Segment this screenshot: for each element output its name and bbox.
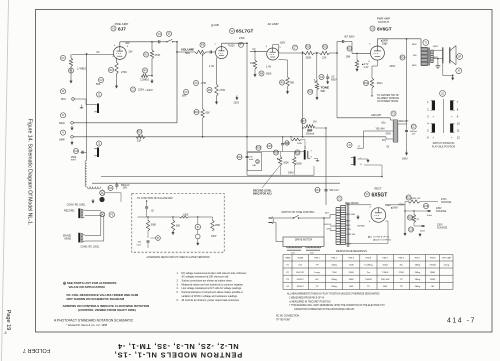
svg-text:C14: C14 bbox=[315, 190, 320, 192]
svg-text:All controls at minimum, prope: All controls at minimum, proper output l… bbox=[182, 299, 240, 302]
page margin rule bbox=[2, 0, 9, 361]
mic jack J1 bbox=[72, 92, 102, 113]
svg-text:M: M bbox=[458, 71, 460, 73]
svg-text:R12: R12 bbox=[308, 92, 313, 94]
svg-text:2m: 2m bbox=[367, 272, 370, 274]
junction dot mic line bbox=[86, 53, 88, 55]
motor windings bbox=[287, 247, 322, 248]
svg-text:14Ω: 14Ω bbox=[413, 54, 417, 57]
svg-text:TO PIN 8 OF V3: TO PIN 8 OF V3 bbox=[373, 237, 390, 239]
svg-text:Measured values are from socke: Measured values are from socket pin to c… bbox=[182, 283, 244, 286]
cap C18 40mf 445V source bbox=[404, 203, 432, 217]
svg-text:° Howard W. Sams & Co., Inc. 1: ° Howard W. Sams & Co., Inc. 1958 bbox=[66, 323, 108, 327]
speaker designator SP bbox=[457, 54, 463, 60]
input designator RAD bbox=[59, 113, 66, 125]
svg-text:50Ω: 50Ω bbox=[382, 122, 387, 125]
svg-text:TO JUNCTION OF R11 AND R20: TO JUNCTION OF R11 AND R20 bbox=[137, 197, 173, 200]
svg-text:260VAC: 260VAC bbox=[357, 225, 365, 228]
bus wire y183.2 bbox=[92, 182, 340, 184]
svg-text:SWITCH ON TONE CONTROL: SWITCH ON TONE CONTROL bbox=[281, 211, 315, 214]
svg-text:A PHOTOFACT STANDARD NOTATI: A PHOTOFACT STANDARD NOTATION SCHEMATIC bbox=[54, 319, 134, 323]
ref left of R10 bbox=[292, 45, 297, 50]
svg-text:.007 600V: .007 600V bbox=[344, 35, 355, 38]
svg-text:9Ω: 9Ω bbox=[431, 285, 434, 288]
svg-text:2500: 2500 bbox=[71, 157, 77, 159]
alt cap 250mmf 2KV bbox=[137, 241, 150, 248]
svg-text:GRN: GRN bbox=[327, 228, 332, 230]
coupling cap C9 .007 600V bbox=[337, 35, 355, 53]
wire grid V1 bbox=[72, 54, 113, 56]
svg-text:0V: 0V bbox=[96, 50, 99, 54]
cathode resistor R2 270 ohm bbox=[115, 58, 118, 85]
B+ series resistor R10 220K bbox=[302, 51, 319, 59]
resistor refs R1 bbox=[60, 55, 86, 73]
svg-text:R11: R11 bbox=[323, 47, 328, 49]
rectifier output labels bbox=[385, 205, 404, 210]
svg-text:R14: R14 bbox=[364, 83, 369, 85]
choke labels bbox=[376, 121, 409, 149]
svg-text:PIN 8: PIN 8 bbox=[430, 258, 436, 260]
svg-text:250Ω: 250Ω bbox=[382, 264, 388, 267]
coil horizontal run bbox=[87, 187, 100, 189]
svg-text:RED-WH: RED-WH bbox=[399, 121, 409, 123]
svg-text:10M: 10M bbox=[346, 56, 351, 59]
power transformer T2 label leads bbox=[345, 202, 365, 245]
tube designator 6SL7GT bbox=[229, 28, 253, 33]
svg-text:50K: 50K bbox=[321, 89, 326, 93]
svg-text:R10: R10 bbox=[306, 47, 311, 49]
svg-text:RAD.: RAD. bbox=[59, 121, 65, 125]
svg-text:C17: C17 bbox=[412, 127, 417, 129]
svg-text:CAPACITOR CONNECTED IN THE ASS: CAPACITOR CONNECTED IN THE ASSOCIATED CI… bbox=[294, 308, 355, 311]
svg-text:RECT: RECT bbox=[374, 187, 381, 191]
see parts list note bbox=[63, 281, 117, 289]
svg-text:PENTRON MODELS NL-1, -1S,: PENTRON MODELS NL-1, -1S, bbox=[114, 350, 242, 359]
connector leads down bbox=[100, 217, 102, 236]
svg-text:†10K: †10K bbox=[332, 272, 338, 274]
record head wires bbox=[85, 209, 101, 211]
svg-text:PIN 6: PIN 6 bbox=[399, 258, 405, 260]
svg-text:DRIVE MOTOR: DRIVE MOTOR bbox=[295, 239, 312, 242]
svg-text:250Ω: 250Ω bbox=[349, 271, 355, 274]
V2a plate network vertical bbox=[221, 43, 223, 46]
svg-text:CONN. RE. 10911: CONN. RE. 10911 bbox=[81, 247, 100, 249]
V3 cathode voltage labels bbox=[362, 63, 369, 69]
svg-text:mmf: mmf bbox=[71, 160, 76, 162]
svg-text:PIN 3: PIN 3 bbox=[349, 258, 355, 260]
switch contact on coupling line bbox=[166, 39, 177, 42]
numbered notes list bbox=[177, 272, 248, 302]
ground arrow V2a cathode bbox=[216, 100, 218, 103]
svg-text:NL-2, -2S, NL-3, -3S, TM-1, -4: NL-2, -2S, NL-3, -3S, TM-1, -4 bbox=[117, 342, 238, 351]
volume potentiometer R5 bbox=[177, 50, 216, 55]
jack ground arrow bbox=[358, 159, 370, 163]
svg-text:NC NO CONNECTION: NC NO CONNECTION bbox=[276, 316, 299, 318]
connector lead wire bbox=[101, 189, 103, 190]
tube V3 6V6GT bbox=[368, 44, 387, 64]
svg-text:245V: 245V bbox=[288, 172, 294, 175]
refs R8 bbox=[250, 62, 272, 76]
270V SOURCE bbox=[441, 198, 452, 204]
220V SOURCE bbox=[437, 224, 448, 230]
output jack J3 bbox=[347, 142, 363, 166]
V2b plate to B+ bus bbox=[272, 45, 274, 49]
tone feed vertical x338 bbox=[336, 53, 338, 118]
svg-text:MIC.: MIC. bbox=[61, 97, 67, 101]
AC plug bbox=[269, 217, 277, 225]
tube V4 6X5GT bbox=[369, 207, 386, 224]
svg-text:AF AMP: AF AMP bbox=[267, 22, 278, 26]
svg-text:2Meg: 2Meg bbox=[415, 279, 421, 281]
svg-text:82K: 82K bbox=[206, 112, 211, 115]
svg-text:80V: 80V bbox=[182, 95, 187, 98]
svg-text:PIN 1: PIN 1 bbox=[314, 258, 320, 260]
svg-text:PIN 4: PIN 4 bbox=[366, 258, 372, 260]
power transformer core bbox=[346, 203, 348, 247]
svg-text:TO CENTER TAP OF: TO CENTER TAP OF bbox=[377, 94, 400, 97]
bus vertical from coupling to volume bbox=[176, 42, 178, 123]
bus resistor R15 51K bbox=[136, 129, 145, 142]
svg-text:500K: 500K bbox=[297, 164, 303, 166]
svg-text:†50K: †50K bbox=[349, 265, 355, 267]
tube designator V3 6V6GT bbox=[370, 26, 392, 31]
svg-text:2700: 2700 bbox=[220, 89, 226, 92]
input designator AMP bbox=[59, 130, 66, 142]
V3 cathode resistor R14 250 ohm bbox=[370, 60, 377, 94]
resistor R23 250K to neon bbox=[285, 136, 305, 150]
svg-text:1000mf: 1000mf bbox=[410, 131, 418, 133]
V3 plate wire to output transformer bbox=[376, 39, 378, 46]
tone takeoff vertical bbox=[316, 53, 318, 79]
svg-text:ALTERNATE NEON CIRCUIT USED IN: ALTERNATE NEON CIRCUIT USED IN LATER VER… bbox=[146, 256, 210, 259]
V1 plate wire to B+ bbox=[119, 42, 121, 47]
output transformer T1 secondary bbox=[431, 46, 438, 62]
svg-text:50K: 50K bbox=[176, 226, 181, 228]
svg-text:245V: 245V bbox=[390, 65, 396, 68]
svg-text:470K: 470K bbox=[155, 54, 161, 57]
svg-text:560K: 560K bbox=[266, 73, 272, 76]
svg-text:2.7MEG: 2.7MEG bbox=[77, 68, 86, 71]
svg-text:RESISTANCE READINGS: RESISTANCE READINGS bbox=[336, 249, 367, 253]
plate voltage label 220V bbox=[130, 87, 144, 92]
filter choke winding bbox=[390, 118, 398, 142]
svg-text:FILAMENT WINDING: FILAMENT WINDING bbox=[377, 97, 399, 100]
table header row bbox=[285, 257, 452, 260]
svg-text:345V: 345V bbox=[211, 236, 217, 238]
svg-text:PIN 2: PIN 2 bbox=[331, 258, 337, 260]
svg-text:C10: C10 bbox=[74, 151, 79, 153]
record level pot R19 500K bbox=[273, 150, 289, 166]
svg-text:C18: C18 bbox=[424, 206, 429, 208]
refs R2 bbox=[108, 67, 127, 74]
RAD input node and wire bbox=[71, 122, 177, 125]
note to center tap bbox=[371, 94, 400, 103]
svg-text:ALL MEASUREMENTS TAKEN IN “PLA: ALL MEASUREMENTS TAKEN IN “PLAY” POSITIO… bbox=[287, 293, 380, 296]
record head connector bbox=[100, 212, 105, 217]
record level circuit frame lines bbox=[247, 174, 314, 176]
svg-text:M: M bbox=[62, 91, 64, 93]
ground arrow above record head bbox=[92, 199, 94, 202]
svg-text:RED: RED bbox=[412, 65, 417, 67]
output transformer T1 primary bbox=[412, 44, 428, 67]
resistor R21 660ohm 1W bbox=[405, 195, 438, 205]
svg-text:BLK-R: BLK-R bbox=[325, 224, 332, 226]
filter choke designator bbox=[391, 111, 396, 116]
alt box bus y217 bbox=[138, 216, 180, 218]
svg-text:270Ω: 270Ω bbox=[399, 271, 405, 274]
plug connector P2 dark bbox=[99, 197, 104, 202]
dc coil resistance note bbox=[67, 293, 139, 301]
abbreviation notes NC TP bbox=[276, 316, 299, 322]
shielded lead coil to head bbox=[86, 54, 88, 161]
svg-text:PIN 7: PIN 7 bbox=[415, 258, 421, 260]
refs R17 1M 250mmf bbox=[301, 118, 316, 135]
refs R16 bbox=[194, 109, 210, 114]
svg-text:50K: 50K bbox=[185, 51, 190, 55]
alt neon lamp NE51 bbox=[195, 216, 200, 245]
tone cap C8 bbox=[326, 74, 337, 84]
plug connector P1 bbox=[100, 190, 105, 195]
V2a cathode resistor R6 bbox=[215, 58, 218, 101]
output ground arrow bbox=[443, 63, 462, 80]
resistance table grid bbox=[283, 255, 453, 290]
svg-text:2Meg: 2Meg bbox=[331, 279, 337, 281]
refs C4 S1 bbox=[157, 31, 172, 37]
record head connector ref bbox=[109, 212, 114, 217]
vertical x326 to power area bbox=[325, 128, 327, 205]
input designator M1 MIC bbox=[60, 89, 66, 101]
svg-text:1 MEASURED FROM PIN 8 OF V4: 1 MEASURED FROM PIN 8 OF V4 bbox=[289, 297, 325, 300]
svg-text:AC voltages measured at 20K o: AC voltages measured at 20K ohms per vol… bbox=[182, 276, 230, 279]
screen bypass ref bbox=[96, 77, 104, 86]
ref R10 bbox=[305, 44, 310, 49]
svg-text:2.2MEG: 2.2MEG bbox=[140, 79, 149, 82]
445V SOURCE bbox=[436, 207, 447, 213]
svg-text:2Meg: 2Meg bbox=[415, 265, 421, 267]
svg-text:Line voltage maintained at 117: Line voltage maintained at 117 volts for… bbox=[182, 287, 243, 290]
svg-text:-8: -8 bbox=[4, 331, 7, 335]
tube designator V1 6J7 bbox=[111, 26, 126, 31]
svg-text:VOLUME: VOLUME bbox=[181, 48, 194, 52]
svg-text:500K: 500K bbox=[284, 163, 290, 165]
transformer primary leads bbox=[324, 213, 336, 231]
decoupling vertical x247 bbox=[246, 43, 248, 121]
RAD ground arrow bbox=[71, 126, 73, 129]
svg-text:CONN. RE. 10911: CONN. RE. 10911 bbox=[67, 204, 86, 206]
svg-text:DC voltage measurements taken: DC voltage measurements taken with vacuu… bbox=[182, 272, 248, 275]
svg-text:4.: 4. bbox=[177, 287, 179, 290]
ref volume bbox=[200, 42, 205, 47]
svg-text:C16: C16 bbox=[255, 161, 260, 163]
svg-text:2Meg: 2Meg bbox=[415, 286, 421, 288]
output transformer core bbox=[427, 48, 429, 66]
takeoff vertical x302.6 bbox=[302, 51, 304, 137]
label TONE 50K bbox=[321, 86, 330, 93]
rectifier plate wires bbox=[346, 204, 372, 206]
svg-text:25K•10K: 25K•10K bbox=[381, 279, 390, 281]
svg-text:1M: 1M bbox=[313, 121, 316, 124]
svg-text:■240V: ■240V bbox=[391, 206, 398, 209]
svg-text:250mmf: 250mmf bbox=[306, 134, 315, 136]
svg-text:12K: 12K bbox=[322, 57, 327, 60]
AMP input node bbox=[71, 136, 74, 139]
speaker bbox=[433, 46, 456, 65]
plate resistor R7 270K bbox=[238, 37, 245, 47]
svg-text:600V: 600V bbox=[331, 79, 337, 82]
svg-text:6SL7GT: 6SL7GT bbox=[296, 272, 305, 274]
svg-text:FOLDER 7: FOLDER 7 bbox=[23, 347, 50, 353]
speaker ground bbox=[436, 58, 441, 69]
svg-text:40mf: 40mf bbox=[420, 231, 425, 233]
V3 plate voltage labels bbox=[381, 40, 388, 46]
svg-text:2700Ω: 2700Ω bbox=[429, 264, 436, 267]
arrows on controls note bbox=[63, 304, 150, 312]
svg-text:150K: 150K bbox=[215, 225, 221, 227]
svg-text:1.: 1. bbox=[177, 272, 179, 275]
svg-text:NC: NC bbox=[400, 265, 404, 267]
svg-text:6X5GT: 6X5GT bbox=[297, 286, 305, 288]
grid resistor R1 2.7MEG bbox=[69, 54, 72, 79]
neon ground bbox=[314, 159, 319, 162]
svg-text:TOP CAP: TOP CAP bbox=[442, 257, 452, 260]
svg-text:SOURCE: SOURCE bbox=[436, 210, 447, 213]
svg-text:Figure 14. Schematic Diagram: Figure 14. Schematic Diagram Of Model NL… bbox=[27, 119, 33, 226]
ref R11 bbox=[322, 44, 327, 49]
cap C14 500mmf on x326 bbox=[315, 187, 339, 192]
svg-text:80P: 80P bbox=[126, 43, 131, 45]
svg-text:†600Ω: †600Ω bbox=[365, 278, 372, 281]
svg-text:1Meg: 1Meg bbox=[331, 265, 337, 267]
svg-text:C15: C15 bbox=[267, 146, 272, 148]
tone pot 50K bbox=[314, 79, 319, 96]
refs R3 470K bbox=[143, 52, 160, 57]
coil loops bbox=[85, 161, 87, 188]
electrolytic C17 1000mf bbox=[398, 124, 417, 136]
AMP ground arrow bbox=[71, 141, 73, 144]
refs R14 bbox=[363, 80, 382, 85]
svg-text:Nominal tolerance of component: Nominal tolerance of component values ma… bbox=[182, 291, 244, 294]
svg-text:SOURCE: SOURCE bbox=[437, 227, 448, 230]
bus wire y176.5 bbox=[101, 176, 382, 178]
jack wire down bbox=[364, 164, 382, 166]
tube V2b triode bbox=[266, 46, 282, 60]
screen feed vertical x406 bbox=[406, 39, 408, 124]
ground arrows power bbox=[404, 226, 422, 237]
svg-text:C11: C11 bbox=[108, 188, 113, 190]
tube V1 6J7 bbox=[112, 45, 129, 59]
svg-text:10V: 10V bbox=[412, 134, 416, 136]
svg-text:25V: 25V bbox=[129, 52, 134, 54]
dashed alternate circuit box bbox=[132, 193, 224, 252]
voltage marker 220V near C12 bbox=[234, 96, 240, 105]
ref C9 and grid resistor bbox=[346, 46, 353, 59]
svg-text:51K: 51K bbox=[137, 140, 142, 143]
tube V2a triode bbox=[214, 44, 230, 59]
svg-text:RECORD: RECORD bbox=[64, 209, 75, 212]
bus cap C11 680mmf bbox=[108, 183, 130, 191]
svg-text:12: 12 bbox=[457, 136, 460, 140]
power transformer primary winding bbox=[336, 207, 340, 209]
svg-text:10%: 10% bbox=[123, 188, 128, 190]
svg-text:PIN 5: PIN 5 bbox=[382, 258, 388, 260]
svg-text:R13: R13 bbox=[347, 48, 352, 50]
svg-text:⨁ 1MF: ⨁ 1MF bbox=[211, 23, 220, 27]
svg-text:6K: 6K bbox=[387, 147, 390, 149]
ground arrow below R9 bbox=[287, 90, 289, 93]
vertical x202.6 with resistor R16 82K bbox=[201, 55, 204, 138]
svg-text:6V6GT: 6V6GT bbox=[297, 279, 305, 281]
table data rows bbox=[286, 264, 450, 288]
svg-text:R17: R17 bbox=[301, 121, 306, 123]
svg-text:SOURCE: SOURCE bbox=[441, 201, 452, 204]
designator T1 bbox=[423, 40, 429, 46]
motor feet bbox=[287, 250, 320, 254]
svg-text:.27M: .27M bbox=[201, 82, 206, 85]
svg-text:250V: 250V bbox=[382, 43, 388, 46]
svg-text:HEAD: HEAD bbox=[65, 238, 72, 241]
svg-text:250Ω: 250Ω bbox=[377, 82, 383, 85]
AC lower wire to motor bbox=[275, 223, 277, 242]
svg-text:1meg: 1meg bbox=[314, 272, 320, 274]
grid resistor R8 1MEG bbox=[253, 50, 256, 73]
svg-text:660Ω 1W: 660Ω 1W bbox=[411, 197, 421, 200]
svg-text:414 -7: 414 -7 bbox=[447, 318, 476, 325]
svg-text:1.3V: 1.3V bbox=[364, 66, 369, 69]
svg-text:† THIS READING WILL VARY DEP: † THIS READING WILL VARY DEPENDING UPON … bbox=[289, 304, 385, 307]
RC pair R17 C13 on y128 bbox=[302, 125, 327, 131]
bus jog to choke bbox=[385, 137, 387, 139]
svg-text:5.: 5. bbox=[177, 291, 179, 294]
svg-text:6.: 6. bbox=[177, 299, 179, 302]
neon indicator electrodes bbox=[304, 146, 313, 160]
svg-text:mmf: mmf bbox=[137, 244, 142, 246]
svg-text:R16: R16 bbox=[194, 112, 199, 114]
svg-text:GRN-WH: GRN-WH bbox=[371, 114, 381, 117]
V3 grid resistor vertical bbox=[355, 53, 358, 72]
refs tone bbox=[308, 74, 324, 94]
svg-text:270K: 270K bbox=[239, 37, 245, 40]
svg-text:INDICATOR ADJ.: INDICATOR ADJ. bbox=[253, 193, 272, 196]
table footnotes bbox=[287, 293, 385, 311]
ground arrow below R8 bbox=[254, 73, 256, 76]
erase head label bbox=[63, 234, 72, 240]
svg-text:ITEM: ITEM bbox=[285, 258, 290, 260]
svg-text:GRN: GRN bbox=[386, 134, 391, 136]
cap C19 40mf 220V bbox=[408, 225, 425, 232]
svg-text:∗ MEASURED IN “RECORD” POSIT: ∗ MEASURED IN “RECORD” POSITION bbox=[289, 300, 331, 303]
record head bbox=[64, 209, 85, 219]
V2b cathode resistor R9 56K bbox=[279, 60, 290, 91]
svg-text:1.4V: 1.4V bbox=[266, 66, 271, 69]
ground arrow below R4 node bbox=[151, 79, 153, 82]
rectifier output wire bbox=[386, 204, 405, 206]
svg-text:SP: SP bbox=[458, 56, 462, 58]
svg-text:200V: 200V bbox=[402, 158, 408, 161]
screen dropping resistor ref bbox=[400, 55, 405, 60]
svg-text:680mmf: 680mmf bbox=[121, 185, 130, 187]
svg-text:150K: 150K bbox=[183, 215, 189, 217]
coupling capacitor C4 bbox=[159, 40, 167, 43]
svg-text:3.: 3. bbox=[177, 283, 179, 286]
ground arrow below R1 bbox=[70, 79, 72, 82]
label PWR AMP OUTPUT bbox=[377, 17, 390, 25]
plate load resistor R3 470K bbox=[150, 42, 153, 68]
switch contact columns bbox=[427, 99, 460, 140]
svg-text:3MΩ: 3MΩ bbox=[430, 271, 435, 274]
svg-text:• 220V: • 220V bbox=[145, 88, 153, 92]
power transformer T2 secondary winding bbox=[341, 205, 346, 207]
GRN-WH bus y117.8 bbox=[337, 114, 390, 118]
